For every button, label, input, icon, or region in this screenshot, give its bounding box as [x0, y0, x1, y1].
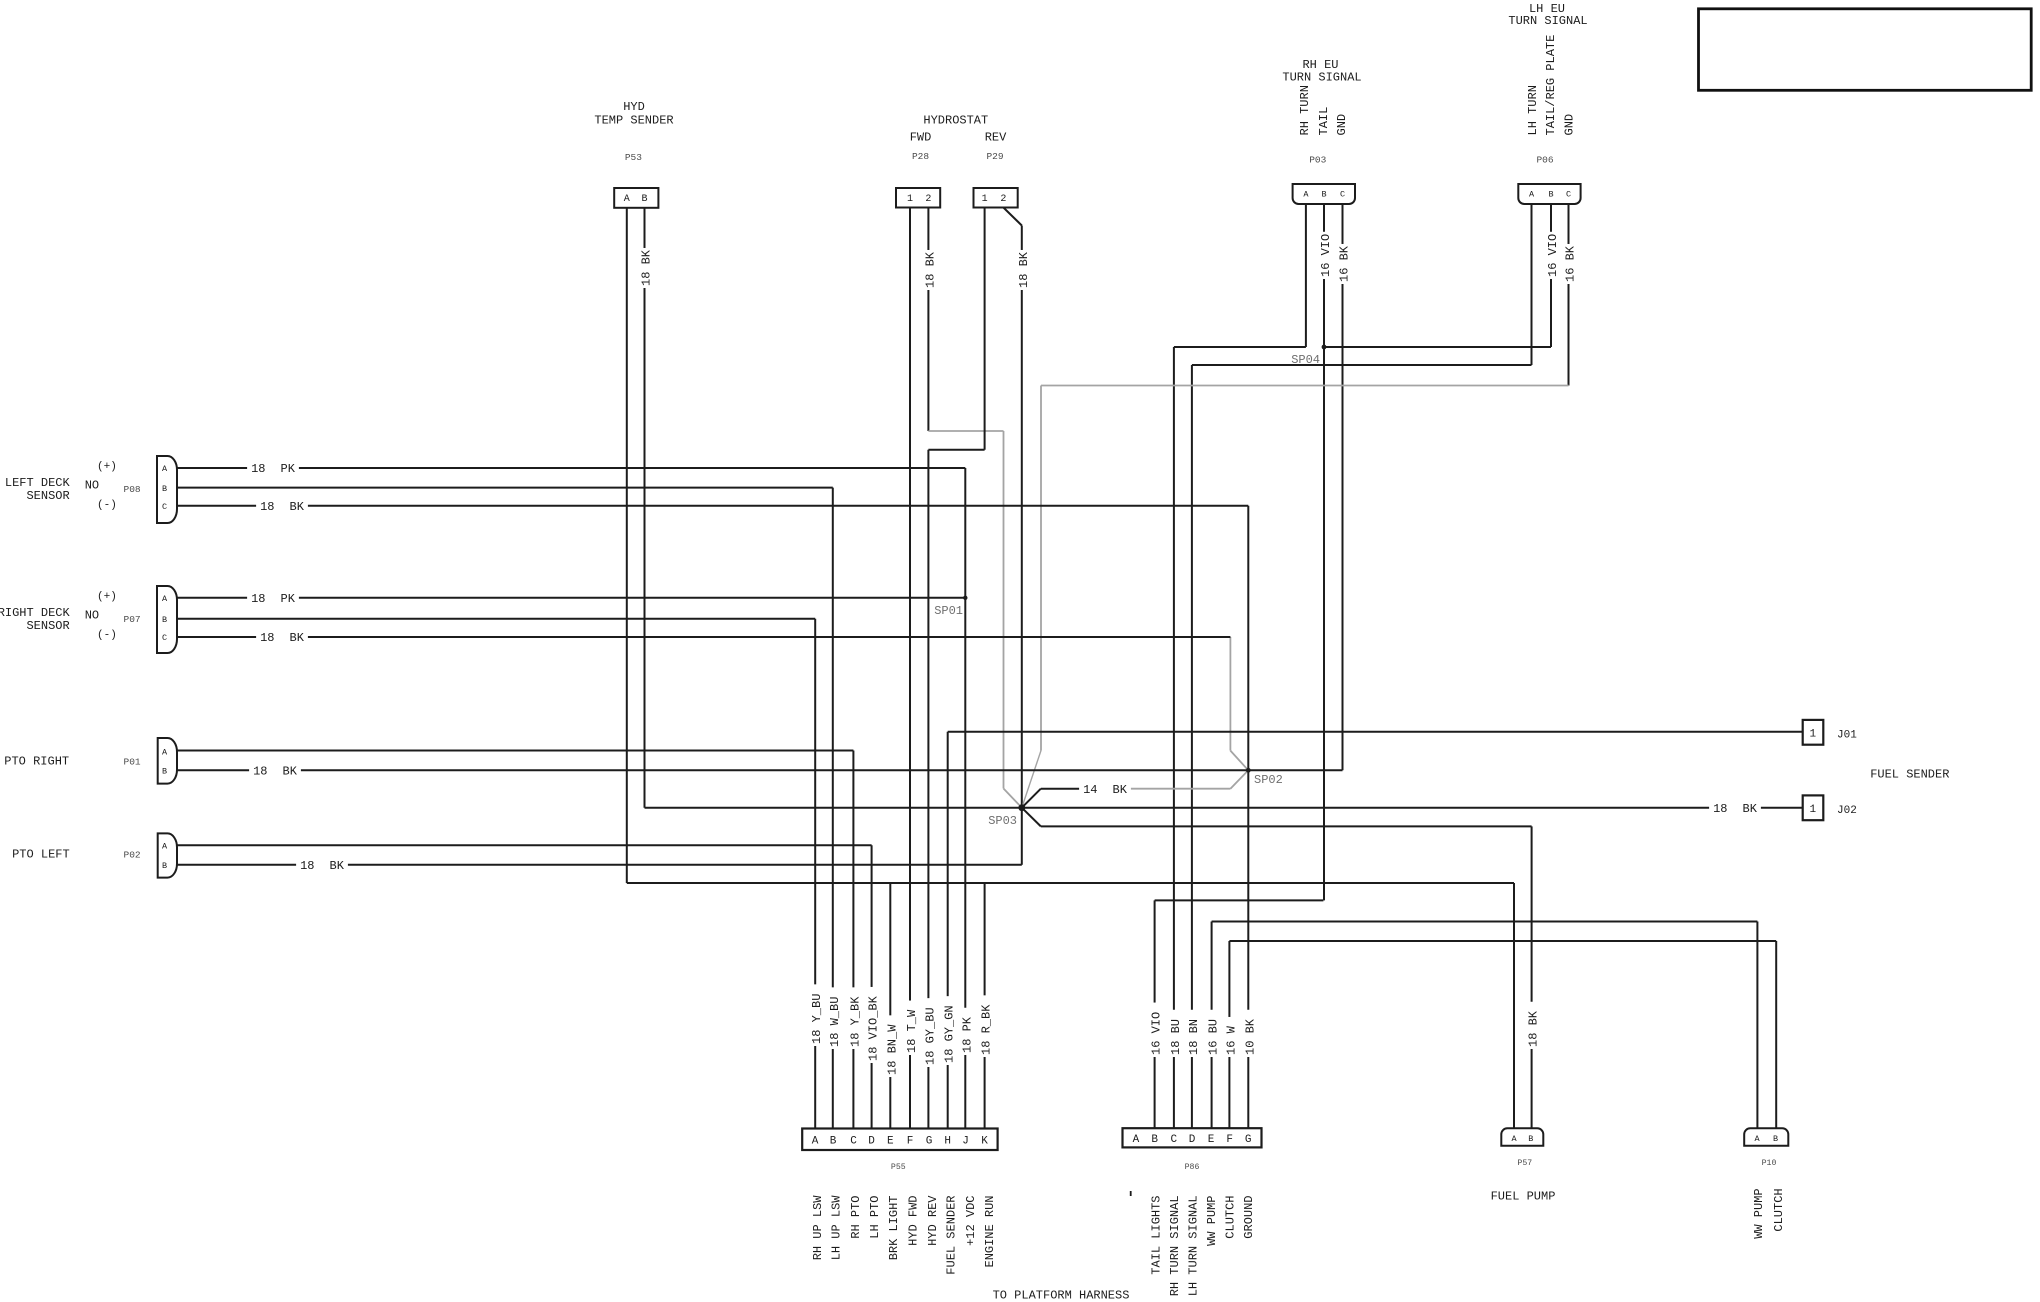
svg-text:LH UP LSW: LH UP LSW	[829, 1195, 843, 1261]
label wire 16 W on P86-F	[1222, 1017, 1236, 1057]
svg-text:F: F	[907, 1135, 914, 1147]
wire 14 BK splice link black segment	[1041, 788, 1082, 790]
svg-text:18 GY_BU: 18 GY_BU	[923, 1007, 937, 1065]
svg-text:(-): (-)	[97, 500, 117, 512]
svg-text:18 GY_GN: 18 GY_GN	[943, 1005, 957, 1063]
svg-text:PTO LEFT: PTO LEFT	[12, 847, 70, 861]
wire left deck A (+) 18 PK run y=468	[177, 467, 965, 469]
svg-text:18 Y_BK: 18 Y_BK	[848, 996, 862, 1047]
label wire 18 BN_W on P55-E	[883, 1015, 897, 1077]
title block box top right	[1699, 9, 2032, 91]
wire 14 BK splice link grey segment	[1128, 788, 1230, 790]
wire P03-B TAIL 16 VIO: down through SP04 to corner y=900	[1323, 204, 1325, 900]
svg-text:1: 1	[982, 194, 988, 205]
svg-text:16 W: 16 W	[1224, 1025, 1238, 1055]
svg-text:BK: BK	[1113, 783, 1128, 797]
wire P55-K ENGINE RUN up to long rail	[984, 883, 986, 1129]
svg-text:C: C	[1566, 190, 1571, 200]
svg-text:18 BK: 18 BK	[923, 251, 937, 288]
wire 14 BK splice link SP03 diagonal	[1022, 789, 1041, 808]
wire left deck B NO run y=487.6	[177, 487, 833, 489]
svg-text:RH TURN: RH TURN	[1298, 85, 1312, 135]
svg-text:A: A	[624, 194, 630, 205]
wire TAIL rail jog y=900.4	[1155, 899, 1324, 901]
connector P03 RH EU TURN SIGNAL body	[1293, 184, 1355, 204]
wire PTO RIGHT A: down to P55-C	[852, 751, 854, 1129]
svg-text:18 PK: 18 PK	[960, 1016, 974, 1053]
wire P29-2 ground diagonal jog at top	[1003, 208, 1021, 226]
svg-text:NO: NO	[85, 478, 99, 492]
label wire 18 BK on J02 ground rail	[1709, 801, 1761, 815]
svg-text:1: 1	[1809, 729, 1816, 741]
svg-text:P07: P07	[124, 614, 141, 625]
svg-text:B: B	[1548, 190, 1553, 200]
svg-text:18: 18	[253, 765, 267, 779]
label wire 18 Y_BK on P55-C	[846, 987, 860, 1049]
svg-text:P57: P57	[1517, 1159, 1532, 1168]
svg-text:SP02: SP02	[1254, 773, 1283, 787]
connector P86 platform harness body	[1123, 1128, 1262, 1147]
wire left deck A (+) corner down through SP01 to P55-J	[964, 468, 966, 1129]
svg-text:18 BK: 18 BK	[1017, 251, 1031, 288]
wire P03-A RH TURN: down from pin A	[1305, 204, 1307, 347]
svg-text:REV: REV	[985, 131, 1007, 145]
connector P28 HYDROSTAT FWD body	[896, 188, 940, 208]
svg-text:CLUTCH: CLUTCH	[1772, 1188, 1786, 1231]
wire ground rail P53-B / SP03 / J02 run y=807.7	[645, 807, 1803, 809]
label wire 18 BK on P28-2	[921, 250, 935, 290]
svg-text:18: 18	[260, 631, 274, 645]
svg-text:NO: NO	[85, 608, 99, 622]
svg-text:RH PTO: RH PTO	[849, 1195, 863, 1238]
label wire 18 Y_BU on P55-A	[808, 984, 822, 1046]
svg-text:LH PTO: LH PTO	[868, 1195, 882, 1238]
svg-text:2: 2	[925, 194, 931, 205]
svg-text:18 VIO_BK: 18 VIO_BK	[867, 995, 881, 1061]
wire P53-B ground: down from P53 pin B to SP03/J02 rail	[644, 208, 646, 808]
svg-text:10 BK: 10 BK	[1243, 1018, 1257, 1055]
label wire 14 BK on splice link	[1079, 782, 1131, 796]
svg-text:B: B	[830, 1135, 837, 1147]
svg-text:FUEL SENDER: FUEL SENDER	[1870, 767, 1949, 781]
wire SP04 TAIL splice run y=347 to P06-B	[1323, 346, 1551, 348]
svg-text:BK: BK	[290, 631, 305, 645]
wire right deck B NO run y=618.8	[177, 618, 815, 620]
svg-text:16 VIO: 16 VIO	[1546, 234, 1560, 277]
svg-text:HYD FWD: HYD FWD	[907, 1195, 921, 1245]
svg-text:J02: J02	[1837, 805, 1857, 817]
wire P03-A corner run y=347	[1174, 346, 1306, 348]
svg-text:18 BN_W: 18 BN_W	[885, 1024, 899, 1075]
label dash below P86-A	[1130, 1191, 1132, 1196]
label wire 18 BK on P29-2	[1015, 250, 1029, 290]
wire P10-B CLUTCH: down to P10	[1775, 941, 1777, 1128]
wire right deck C ground (grey) down	[1229, 637, 1231, 751]
wire P86-E WW PUMP up to corner	[1211, 922, 1213, 1129]
svg-text:18 T_W: 18 T_W	[905, 1009, 919, 1053]
label wire 18 T_W on P55-F	[903, 1001, 917, 1055]
svg-text:A: A	[1511, 1134, 1517, 1144]
svg-text:18: 18	[300, 859, 314, 873]
svg-text:16 BK: 16 BK	[1564, 245, 1578, 282]
connector P53 HYD TEMP SENDER body	[614, 188, 658, 208]
wire right deck B NO: down to P55-A	[814, 619, 816, 1129]
svg-text:LH TURN SIGNAL: LH TURN SIGNAL	[1187, 1195, 1201, 1296]
svg-text:16 BK: 16 BK	[1338, 245, 1352, 282]
wire J01 fuel sender signal run y=731.8	[948, 731, 1803, 733]
svg-text:18: 18	[251, 462, 265, 476]
svg-text:P02: P02	[124, 849, 141, 860]
svg-text:TAIL/REG PLATE: TAIL/REG PLATE	[1544, 35, 1558, 136]
splice SP02 junction dot	[1246, 768, 1251, 773]
wire right deck A (+) 18 PK run y=597.8 to SP01	[177, 597, 965, 599]
label wire 18 GY_BU on P55-G	[921, 998, 935, 1067]
svg-text:P01: P01	[124, 757, 141, 768]
wire left deck C ground 18 BK run y=505.8	[177, 505, 1248, 507]
svg-text:GND: GND	[1335, 114, 1349, 136]
svg-text:HYDROSTAT: HYDROSTAT	[923, 113, 988, 127]
label wire 18 VIO_BK on P55-D	[865, 987, 879, 1063]
wire SP03 diagonal to fuel pump ground run	[1022, 808, 1041, 827]
label wire 18 BN on P86-D	[1185, 1010, 1199, 1057]
label wire 18 W_BU on P55-B	[826, 987, 840, 1049]
svg-text:A: A	[162, 594, 168, 604]
svg-text:(+): (+)	[97, 461, 117, 473]
label wire 16 VIO on P86-B	[1148, 1003, 1162, 1057]
wire SP03 stub down to PTO LEFT B rail	[1021, 808, 1023, 865]
wire left deck B NO: down to P55-B	[832, 488, 834, 1129]
wire P06-C GND 16 BK: down to grey rail	[1568, 204, 1570, 386]
svg-text:P55: P55	[891, 1163, 906, 1172]
svg-text:WW PUMP: WW PUMP	[1752, 1188, 1766, 1238]
svg-text:C: C	[162, 633, 167, 643]
svg-text:GROUND: GROUND	[1242, 1195, 1256, 1238]
svg-text:K: K	[981, 1135, 988, 1147]
svg-text:A: A	[162, 841, 168, 851]
svg-text:18 BN: 18 BN	[1187, 1019, 1201, 1055]
wire PTO LEFT A: down to P55-D	[871, 845, 873, 1128]
svg-text:G: G	[926, 1135, 933, 1147]
svg-text:PK: PK	[281, 592, 296, 606]
svg-text:J: J	[962, 1135, 969, 1147]
wire PTO RIGHT A run y=750.5	[177, 750, 853, 752]
svg-text:A: A	[1303, 190, 1309, 200]
svg-text:TURN SIGNAL: TURN SIGNAL	[1508, 14, 1587, 28]
svg-text:18 W_BU: 18 W_BU	[828, 997, 842, 1047]
svg-text:BK: BK	[1743, 802, 1758, 816]
svg-text:SP04: SP04	[1291, 353, 1320, 367]
wire P29-1 jog left at y=449.8	[928, 449, 984, 451]
wire long rail P53-A / BRK LIGHT / ENGINE RUN / P57-A run y=883	[627, 882, 1514, 884]
label wire 18 BK on left deck C	[256, 499, 308, 513]
svg-text:B: B	[1321, 190, 1326, 200]
svg-text:FWD: FWD	[910, 131, 932, 145]
label wire 18 BK on right deck C	[256, 630, 308, 644]
connector P08 LEFT DECK SENSOR body	[157, 456, 177, 523]
label wire 18 PK on right deck A	[247, 591, 299, 605]
svg-text:F: F	[1226, 1134, 1233, 1146]
svg-text:PK: PK	[281, 462, 296, 476]
wire P53-A signal: down from P53 pin A	[626, 208, 628, 883]
svg-text:+12 VDC: +12 VDC	[964, 1195, 978, 1245]
label wire 16 BK on P03-C	[1336, 244, 1350, 284]
svg-text:18: 18	[251, 592, 265, 606]
wire P86-F CLUTCH up to corner	[1228, 941, 1230, 1128]
svg-text:B: B	[162, 861, 167, 871]
svg-text:P29: P29	[986, 151, 1003, 162]
connector P10 WW PUMP CLUTCH body	[1744, 1128, 1788, 1146]
connector P01 PTO RIGHT body	[158, 738, 177, 784]
svg-text:TAIL LIGHTS: TAIL LIGHTS	[1150, 1195, 1164, 1274]
connector P57 FUEL PUMP body	[1501, 1128, 1543, 1146]
svg-text:H: H	[944, 1135, 951, 1147]
label wire 18 BK on P53-B	[638, 248, 652, 288]
svg-text:1: 1	[1809, 804, 1816, 816]
svg-text:(+): (+)	[97, 591, 117, 603]
svg-text:TAIL: TAIL	[1317, 107, 1331, 136]
connector P07 RIGHT DECK SENSOR body	[157, 586, 177, 653]
svg-text:HYD: HYD	[623, 100, 645, 114]
svg-text:18: 18	[1713, 802, 1727, 816]
wire PTO RIGHT B ground 18 BK run y=770.3 through SP02 to P03-C	[177, 769, 1343, 771]
svg-text:16 VIO: 16 VIO	[1150, 1012, 1164, 1055]
svg-text:SP01: SP01	[934, 604, 963, 618]
svg-text:P03: P03	[1309, 155, 1326, 166]
svg-text:FUEL SENDER: FUEL SENDER	[945, 1195, 959, 1274]
label wire 18 BU on P86-C	[1167, 1010, 1181, 1057]
label wire 10 BK on P86-G	[1241, 1010, 1255, 1057]
svg-text:18 Y_BU: 18 Y_BU	[810, 994, 824, 1044]
wire RH TURN rail down to P86-C	[1173, 347, 1175, 1128]
svg-text:18 BK: 18 BK	[640, 249, 654, 286]
label wire 16 BU on P86-E	[1205, 1010, 1219, 1057]
svg-text:A: A	[1754, 1134, 1760, 1144]
wire P28-2 ground (grey) diagonal into SP03	[1004, 789, 1022, 808]
label wire 18 GY_GN on P55-H	[941, 996, 955, 1065]
svg-text:P08: P08	[124, 484, 141, 495]
wire P06-C ground (grey) vertical x=1041	[1040, 386, 1042, 751]
wire LH TURN rail down to P86-D	[1191, 365, 1193, 1128]
wire P28-2 ground upper segment	[927, 208, 929, 432]
svg-text:WW PUMP: WW PUMP	[1205, 1195, 1219, 1245]
svg-text:1: 1	[907, 194, 913, 205]
svg-text:CLUTCH: CLUTCH	[1224, 1195, 1238, 1238]
svg-text:P86: P86	[1185, 1163, 1200, 1172]
svg-text:A: A	[1529, 190, 1535, 200]
wire P28-2 ground jog (grey) to x=1003.5	[928, 430, 1003, 432]
svg-text:A: A	[812, 1135, 819, 1147]
svg-text:A: A	[1133, 1134, 1140, 1146]
wire CLUTCH run y=941 to P10-B	[1229, 940, 1776, 942]
svg-text:SP03: SP03	[988, 814, 1017, 828]
svg-text:A: A	[162, 747, 168, 757]
svg-text:B: B	[162, 484, 167, 494]
svg-text:BK: BK	[283, 765, 298, 779]
splice SP01 junction dot	[963, 596, 967, 600]
svg-text:B: B	[1151, 1134, 1158, 1146]
wire P55-E BRK LIGHT up to long rail	[889, 883, 891, 1129]
svg-text:16 VIO: 16 VIO	[1319, 234, 1333, 277]
wire P06-C ground (grey) steep diagonal into SP03	[1022, 751, 1041, 808]
wire P28-2 ground (grey) vertical down toward SP03	[1003, 431, 1005, 789]
svg-text:BK: BK	[330, 859, 345, 873]
svg-text:G: G	[1245, 1134, 1252, 1146]
connector P55 platform harness body	[802, 1129, 997, 1151]
svg-text:ENGINE RUN: ENGINE RUN	[983, 1195, 997, 1267]
svg-text:RH UP LSW: RH UP LSW	[811, 1195, 825, 1261]
wire left deck C ground: down through SP02 to P86-G	[1247, 506, 1249, 1128]
label wire 18 PK on P55-J	[958, 1008, 972, 1055]
svg-text:B: B	[641, 194, 647, 205]
svg-text:B: B	[162, 767, 167, 777]
svg-text:B: B	[162, 615, 167, 625]
label wire 18 PK on left deck A	[247, 461, 299, 475]
svg-text:18 BK: 18 BK	[1527, 1010, 1541, 1047]
svg-text:J01: J01	[1837, 730, 1857, 742]
wire PTO LEFT B ground 18 BK run y=864.8 to SP03 stub	[177, 864, 1022, 866]
wire P29-1 HYD REV continued down to P55-G	[927, 450, 929, 1129]
connector J01 fuel sender body	[1803, 720, 1824, 745]
label wire 16 VIO on P06-B	[1544, 232, 1558, 279]
svg-text:TEMP SENDER: TEMP SENDER	[594, 113, 673, 127]
svg-text:HYD REV: HYD REV	[926, 1195, 940, 1246]
connector J02 fuel sender body	[1803, 795, 1824, 820]
wire right deck C ground 18 BK run y=637	[177, 636, 1230, 638]
svg-text:(-): (-)	[97, 630, 117, 642]
wire P28-1 HYD FWD: down to P55-F	[909, 208, 911, 1129]
splice SP03 junction dot	[1018, 804, 1025, 811]
wire P10-A WW PUMP: down to P10	[1756, 922, 1758, 1129]
label wire 16 BK on P06-C	[1562, 244, 1576, 284]
label wire 18 BK on PTO RIGHT B	[249, 763, 301, 777]
wire P55-H FUEL SENDER up to J01 rail	[947, 732, 949, 1129]
svg-text:D: D	[868, 1135, 875, 1147]
wire fuel pump ground run y=826.4	[1041, 825, 1532, 827]
svg-text:LH TURN: LH TURN	[1526, 85, 1540, 135]
svg-text:2: 2	[1000, 194, 1006, 205]
svg-text:RH TURN SIGNAL: RH TURN SIGNAL	[1168, 1195, 1182, 1296]
svg-text:C: C	[162, 502, 167, 512]
wire P06-A LH TURN: down from pin A	[1531, 204, 1533, 365]
svg-text:SENSOR: SENSOR	[26, 619, 69, 633]
svg-text:P10: P10	[1762, 1159, 1777, 1168]
wire P06-A corner run y=365	[1192, 364, 1532, 366]
svg-text:P06: P06	[1536, 155, 1553, 166]
svg-text:C: C	[1340, 190, 1345, 200]
svg-text:GND: GND	[1563, 114, 1577, 136]
svg-text:16 BU: 16 BU	[1207, 1019, 1221, 1055]
svg-text:FUEL PUMP: FUEL PUMP	[1491, 1190, 1556, 1204]
label wire 18 BK on P57-B	[1525, 1002, 1539, 1049]
svg-text:SENSOR: SENSOR	[26, 489, 69, 503]
svg-text:E: E	[1208, 1134, 1215, 1146]
svg-text:P53: P53	[625, 152, 642, 163]
label wire 16 VIO on P03-B	[1317, 232, 1331, 279]
svg-text:TO PLATFORM HARNESS: TO PLATFORM HARNESS	[993, 1289, 1130, 1302]
wire P06-B TAIL 16 VIO: down to SP04 rail	[1550, 204, 1552, 347]
connector P29 HYDROSTAT REV body	[974, 188, 1018, 208]
wire right deck C ground (grey) diagonal into SP02	[1230, 751, 1248, 771]
svg-text:TURN SIGNAL: TURN SIGNAL	[1282, 70, 1361, 84]
connector P06 LH EU TURN SIGNAL body	[1518, 184, 1580, 204]
label wire 18 R_BK on P55-K	[978, 995, 992, 1057]
svg-text:D: D	[1189, 1134, 1196, 1146]
svg-text:P28: P28	[912, 151, 929, 162]
wire WW PUMP run y=921.5 to P10-A	[1212, 921, 1758, 923]
svg-text:A: A	[162, 464, 168, 474]
svg-text:PTO RIGHT: PTO RIGHT	[4, 755, 69, 769]
svg-text:14: 14	[1083, 783, 1097, 797]
wire P06-C ground grey run y=385.5	[1041, 385, 1569, 387]
svg-text:18 R_BK: 18 R_BK	[980, 1004, 994, 1055]
svg-text:BRK LIGHT: BRK LIGHT	[887, 1195, 901, 1260]
wire P57-A fuel pump feed: down to P57	[1513, 883, 1515, 1128]
svg-text:E: E	[887, 1135, 894, 1147]
label wire 18 BK on PTO LEFT B	[296, 858, 348, 872]
wire TAIL rail down to P86-B	[1154, 900, 1156, 1128]
svg-text:B: B	[1528, 1134, 1533, 1144]
svg-text:BK: BK	[290, 500, 305, 514]
svg-text:B: B	[1773, 1134, 1778, 1144]
svg-text:C: C	[850, 1135, 857, 1147]
wire P57-B fuel pump ground 18 BK: down to P57	[1531, 826, 1533, 1128]
wire PTO LEFT A run y=845.2	[177, 844, 872, 846]
wire 14 BK splice link diagonal into SP02	[1230, 770, 1248, 788]
svg-text:18: 18	[260, 500, 274, 514]
splice SP04 junction dot	[1322, 345, 1327, 350]
svg-text:C: C	[1170, 1134, 1177, 1146]
wire P29-2 ground: vertical down to SP03	[1021, 226, 1023, 808]
svg-text:18 BU: 18 BU	[1169, 1019, 1183, 1055]
wire P29-1 HYD REV: down from P29 pin 1	[984, 208, 986, 450]
connector P02 PTO LEFT body	[158, 833, 177, 877]
wire P03-C GND 16 BK: down to SP02 rail	[1342, 204, 1344, 770]
